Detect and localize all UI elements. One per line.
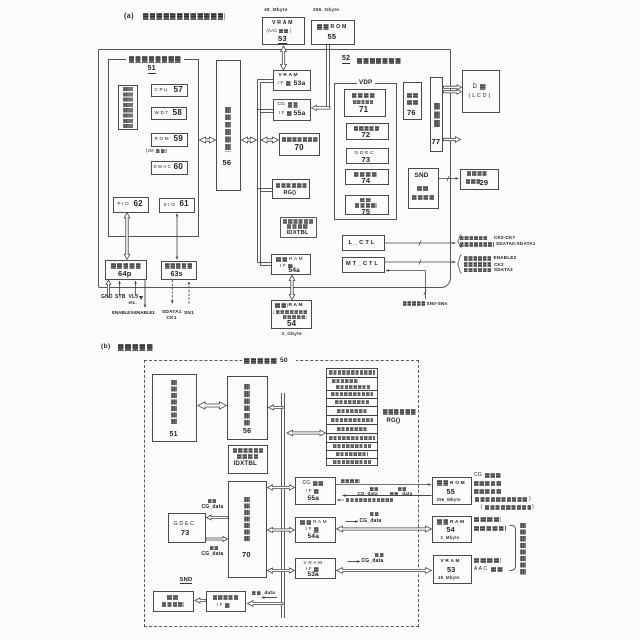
label SND (b)	[180, 577, 193, 585]
label 圧縮 (GDEC)	[208, 499, 217, 503]
label 各種レジスタ (b)	[383, 409, 416, 415]
brace インデックス空間	[510, 525, 516, 570]
num 71	[359, 106, 368, 114]
text 各種レジスタ (a)	[276, 183, 307, 189]
wire CG bus from ROM55 down left line	[326, 45, 328, 109]
text IF部 latin (55a)	[279, 111, 285, 116]
label CG latin (CGデータ)	[474, 473, 482, 478]
box 画像フィルタ 75	[345, 195, 389, 215]
box 描画回路 74	[345, 169, 389, 185]
text 制御レジスタ群 vertical	[123, 87, 133, 128]
box CGバス IF部 55a	[273, 99, 311, 121]
text row MT_CTLレジスタ	[333, 444, 371, 448]
arrow STB into 64p	[118, 281, 121, 296]
text VRAM (b53)	[441, 559, 460, 564]
label 制御プログラム	[485, 505, 531, 510]
wire reg-bus line1 vertical	[257, 80, 259, 263]
text ) close	[290, 29, 292, 33]
text デジタル (29)	[467, 171, 488, 176]
wire main bus line2 (b)	[284, 393, 286, 618]
text 音声 (SND box)	[417, 186, 429, 192]
label 伸長 (54)	[370, 512, 379, 516]
text WDT	[155, 111, 169, 116]
divider row サウンドレジスタ	[326, 458, 378, 460]
text IF部 latin (54a)	[280, 264, 286, 269]
wire CG bus from ROM55 down right line	[329, 45, 331, 107]
text テーブル (b)	[237, 454, 259, 459]
arrow 70 to VRAM-IF (b)	[268, 568, 295, 573]
box 外部ROM 55 (b)	[432, 477, 472, 505]
text CG latin (b55a)	[303, 481, 311, 486]
label 複合チップ 50 on border	[242, 357, 296, 364]
text 表 kanji	[480, 84, 487, 90]
wire stub bus to RG lower	[261, 191, 273, 193]
text ROM (b55)	[450, 481, 465, 486]
box CPU 57	[151, 84, 188, 97]
title (a) kanji 複合チップの内部構成	[143, 13, 225, 20]
text 部 kanji (b53a)	[314, 567, 320, 572]
label 音声 kanji (ROM)	[390, 492, 399, 496]
text CG latin	[278, 102, 286, 107]
box MT_CTL	[342, 257, 385, 273]
label RG() (b)	[387, 418, 401, 424]
label CG_data (GDEC out)	[202, 552, 224, 557]
label 制御プログラム close	[532, 505, 534, 510]
arrow 70 to CGバスIF (b)	[268, 485, 295, 490]
label ブートプログラム close	[529, 497, 531, 502]
slash on SND arrow	[447, 176, 449, 181]
num 63s	[171, 271, 183, 278]
text ROM	[155, 137, 169, 142]
text CPUバス部 vertical	[225, 107, 232, 152]
text GDEC (b)	[174, 522, 195, 527]
label SN1	[184, 311, 194, 316]
box VDP group	[334, 83, 397, 220]
box D表(LCD)	[462, 70, 500, 113]
box CGバス IF部 55a (b)	[295, 477, 336, 505]
text アンプ (29)	[466, 179, 480, 184]
num 53a (b)	[308, 572, 319, 579]
box 拡張RAM IF部 54a (b)	[295, 517, 336, 543]
title (a) prefix	[124, 13, 134, 20]
box 出力選択 76	[403, 82, 422, 120]
box ROM 59	[151, 133, 188, 147]
brace for MT_CTL labels	[458, 255, 462, 273]
num 59	[174, 135, 184, 144]
label 2_Mbyte (b)	[441, 536, 460, 541]
label 内蔵CPU回路 kanji	[129, 56, 182, 63]
num 77	[432, 138, 441, 146]
label etc.	[129, 301, 137, 306]
text row 表示レジスタ	[337, 427, 367, 431]
icon down-triangle after VL3	[139, 296, 143, 300]
num 53a	[294, 80, 306, 87]
text データ転送回路 (a)	[282, 137, 318, 143]
wire stub bus to 53a lower	[261, 82, 274, 84]
arrow bus to メモリバス IF	[248, 601, 284, 607]
text row L_CTLレジスタ	[336, 452, 368, 456]
num 76	[407, 109, 416, 117]
text row プリローダレジスタ	[331, 418, 373, 422]
text GDEC (a VDP)	[355, 151, 374, 156]
text CPUバス部 vertical (b56)	[244, 384, 250, 426]
arrow bus into CPUバス部 (b)	[269, 405, 284, 410]
label ランプ駆動信号	[460, 242, 494, 247]
text 出力 (76)	[407, 93, 419, 99]
num 54 (b)	[447, 526, 455, 534]
text RAM (b54)	[450, 520, 464, 525]
text 部 kanji (membus)	[225, 603, 231, 609]
brace for L_CTL labels	[458, 235, 462, 248]
box SND 音声デコード	[408, 168, 439, 209]
num 53 (b)	[447, 566, 455, 574]
arrow 70 to 拡張RAM-IF (b)	[268, 527, 295, 532]
text バス kanji (b55a)	[313, 481, 324, 487]
box GDEC 73 (a)	[346, 148, 389, 164]
wire stub bus to 54a upper	[258, 262, 272, 264]
label 任意領域 (54)	[474, 517, 501, 522]
wire センサ信号 vertical	[425, 271, 427, 300]
num 50 (b)	[280, 358, 288, 365]
text 画像 (75)	[360, 198, 372, 203]
text D latin	[473, 84, 478, 90]
text AAC領域 kanji	[279, 29, 289, 34]
arrow ENABLE out of 64p	[144, 280, 147, 308]
label 音声データ	[474, 481, 502, 486]
num 55 (b)	[447, 488, 455, 496]
box 拡張RAM 54 (b)	[432, 516, 472, 543]
num 58	[173, 109, 183, 118]
text 拡張 kanji (54a)	[276, 257, 289, 263]
num 54a (b)	[308, 534, 320, 541]
num 73 (b)	[181, 529, 189, 537]
box インデックステーブル IDXTBL (a)	[280, 217, 317, 238]
num 51 (b)	[170, 431, 178, 438]
num 64p	[118, 270, 132, 278]
text インデックス (row2 line1)	[332, 379, 358, 383]
box 出力部 77	[430, 77, 444, 152]
arrow CPU51 to CPUバス部	[200, 137, 216, 143]
num 55a	[294, 110, 306, 117]
text インデックス (b)	[233, 448, 264, 453]
label CG_data (ROM)	[358, 492, 378, 497]
text SIO	[164, 203, 175, 208]
box VRAM IF部 53a	[273, 70, 311, 91]
text IF部 kanji	[286, 81, 292, 87]
text 出力部 vertical (77)	[434, 103, 441, 129]
box 制御レジスタ群	[118, 85, 138, 131]
box VRAM IF部 53a (b)	[295, 558, 336, 579]
label ENABLE2	[494, 256, 517, 261]
text 選択 (76)	[407, 100, 419, 106]
arrow 圧縮データ ROM to 55a	[343, 494, 432, 497]
text CPU	[155, 88, 168, 93]
arrow L_CTL output	[385, 242, 456, 245]
text IF部 kanji (54a)	[288, 264, 294, 269]
text RG()	[284, 191, 297, 197]
text 任意領域 kanji	[283, 315, 305, 319]
label VDP on border	[357, 80, 375, 87]
box VRAM 53 (b)	[433, 555, 473, 584]
num 51	[148, 65, 156, 74]
box プリローダ 72	[346, 123, 389, 140]
wire stub bus to RG upper	[258, 188, 273, 190]
box 各種レジスタ stack (b)	[326, 368, 378, 466]
label CK0-CK7	[494, 236, 515, 241]
text デコーダ	[162, 602, 184, 607]
text IF latin (b53a)	[306, 567, 312, 572]
label 256_Gbyte	[313, 8, 339, 13]
text row GDECレジスタ	[335, 400, 369, 404]
text テーブル (a)	[287, 224, 308, 229]
num 52	[342, 55, 350, 64]
text ) close (54)	[306, 315, 308, 319]
title (b) prefix	[101, 344, 111, 351]
arrow SN1 into 63s	[188, 282, 191, 304]
text テーブル レジスタ (row2 line2)	[336, 385, 370, 389]
text IF latin (membus)	[217, 603, 223, 608]
num 62	[134, 200, 143, 208]
text row データ転送レジスタ	[331, 392, 373, 396]
arrow CG_data tick (54)	[346, 520, 359, 523]
label 256_Mbyte (b)	[437, 498, 461, 503]
num 54	[287, 320, 296, 328]
box CPUバス部 56	[216, 60, 242, 191]
arrow CG bus into 55a	[312, 105, 331, 110]
arrow VL3 into 64p	[134, 281, 137, 296]
title (b) kanji 要部構成図	[118, 344, 154, 351]
text VDP	[359, 80, 372, 87]
num 70 (a)	[295, 144, 304, 152]
num 61	[180, 200, 189, 208]
label 複合チップ kanji (b)	[244, 358, 278, 365]
text 入出力回路 (64p)	[111, 263, 142, 269]
box SIO 61	[159, 198, 195, 213]
text L_CTL	[349, 240, 375, 246]
label センサ信号	[403, 301, 425, 306]
box 拡張RAM 54 external (a)	[271, 300, 313, 329]
label CG_data (GDEC in)	[202, 505, 224, 510]
label SDATA1	[162, 310, 182, 315]
text row システム制御レジスタ	[329, 370, 375, 374]
text (ページ領域+ paren	[273, 310, 275, 314]
arrow SDATA1 out of 63s	[171, 280, 174, 304]
label VL3	[129, 295, 139, 300]
box 拡張RAM IF部 54a (a)	[271, 254, 311, 275]
label 融合演出回路	[357, 58, 401, 65]
arrow SND to アンプ29	[439, 177, 459, 180]
text メモリバス	[213, 595, 239, 600]
text 描画回路 (74)	[354, 172, 378, 177]
arrow 54a to 拡張RAM54	[289, 276, 295, 300]
num 53	[278, 35, 287, 44]
label クロック信号 (MT_CTL)	[464, 262, 491, 267]
label クロック信号 (L_CTL)	[460, 236, 488, 241]
arrow 内蔵CPU51 to CPUバス部 (b)	[198, 402, 227, 409]
arrow データ転送 to GDEC (compressed)	[207, 515, 229, 520]
label GND	[101, 295, 113, 300]
text データ転送回路 vertical (b70)	[244, 497, 250, 542]
box 入出力回路 64p	[105, 260, 147, 280]
slash on MT_CTL output	[419, 259, 421, 264]
num 57	[174, 86, 184, 95]
num 54a	[289, 268, 300, 275]
label _data (membus)	[262, 591, 276, 596]
arrow CPUバス部 to reg-bus	[242, 137, 257, 143]
text インデックス (a)	[283, 219, 313, 224]
label データ (CGデータ)	[485, 473, 502, 478]
label SDATA0-SDATA1	[496, 242, 536, 247]
text row 画像フィルタレジスタ	[329, 436, 375, 440]
label 圧縮 (音声 ROM)	[398, 487, 407, 491]
arrow 出力部 to D表LCD upper	[444, 85, 462, 90]
wire reg-bus line2 vertical	[260, 83, 262, 266]
divider row L_CTLレジスタ	[326, 450, 378, 452]
arrow bus to register stack (b)	[287, 430, 326, 436]
label 2_Gbyte	[282, 332, 302, 337]
num 72	[362, 131, 371, 139]
label CK1	[167, 316, 177, 321]
label _data (ROM)	[400, 492, 413, 497]
text IDXTBL (b)	[234, 461, 258, 468]
text 入出力回路 (63s)	[165, 263, 193, 269]
label 48_Mbyte (b)	[438, 576, 460, 581]
num 56	[223, 159, 232, 167]
num 55	[328, 33, 337, 41]
label 内蔵CPU回路 on border	[126, 56, 184, 63]
box 外部ROM 55 external	[311, 20, 355, 45]
text プリローダ (72)	[354, 126, 380, 131]
label 音声 kanji (membus)	[252, 591, 261, 595]
box L_CTL	[342, 235, 385, 251]
box インデックステーブル IDXTBL (b)	[228, 445, 268, 475]
label SN0-SNn	[427, 302, 448, 307]
text (AAC-area) latin part	[267, 29, 278, 33]
label 2Mバイト kanji	[156, 149, 166, 154]
box メモリバス IF部	[206, 591, 246, 612]
text IF部 latin	[278, 81, 284, 86]
arrow GDEC to データ転送 (expanded)	[206, 537, 228, 542]
text SND label in box	[415, 173, 429, 180]
divider row 描画レジスタ	[326, 406, 378, 408]
divider row プリローダレジスタ	[326, 415, 378, 417]
num 56 (b)	[243, 428, 251, 435]
text 内蔵CPU回路 vertical (b51)	[171, 380, 177, 425]
wire stub bus to 55a upper	[258, 109, 274, 111]
box データ転送回路 70 (b)	[228, 481, 267, 578]
text ページ領域+ kanji	[276, 310, 308, 315]
text 拡張 kanji (b54a)	[300, 520, 313, 526]
arrow GND into 64p	[106, 280, 111, 296]
box WDT 58	[151, 107, 187, 120]
text 外部 kanji (b55)	[437, 480, 450, 486]
wire stub bus to 53a upper	[258, 79, 274, 81]
divider row MT_CTLレジスタ	[326, 442, 378, 444]
arrow reg-bus to データ転送回路	[261, 137, 279, 143]
text 表示回路 (71)	[352, 93, 376, 99]
label AAC latin	[474, 567, 487, 572]
text 部 kanji (b54a)	[314, 527, 320, 533]
box 音声デコーダ	[153, 591, 194, 612]
text row 描画レジスタ	[337, 409, 367, 413]
text デコード (SND box)	[412, 195, 435, 201]
arrow VRAM53 to VRAM-IF 53a	[281, 46, 287, 70]
arrow シリアル転送 tick	[337, 499, 344, 502]
label CG_data (54)	[360, 519, 382, 524]
label (ブートプログラム paren	[471, 497, 473, 502]
arrow MT_CTL output	[385, 261, 456, 264]
divider row 画像フィルタレジスタ	[326, 433, 378, 435]
text row サウンドレジスタ	[333, 460, 371, 464]
divider row インデックステーブルレジスタ	[326, 377, 378, 379]
box 表示回路 71	[344, 89, 386, 117]
label 領域 (53)	[491, 567, 504, 572]
box 各種レジスタ RG()	[272, 179, 310, 199]
text ROM (55)	[331, 25, 347, 30]
label 伸長 (53)	[375, 553, 384, 557]
text IF部 kanji (55a)	[287, 111, 293, 117]
divider row データ転送レジスタ	[326, 390, 378, 392]
label 圧縮 (CG_data ROM)	[370, 487, 379, 491]
num 73 (a VDP)	[362, 156, 371, 164]
num 55a (b)	[308, 496, 320, 503]
label (2M バイト) paren	[146, 149, 154, 153]
label シリアル/パラレル転送	[346, 498, 393, 502]
text PIO	[118, 202, 129, 207]
slash on L_CTL output	[419, 240, 421, 245]
text (ノーマル) (71)	[353, 100, 374, 104]
box CPUバス部 56 (b)	[227, 376, 268, 440]
arrow 音声_data tick	[262, 596, 278, 599]
text RAM (54)	[289, 303, 303, 308]
text 部 kanji (b55a)	[314, 489, 320, 495]
box GDEC 73 (b)	[168, 513, 206, 543]
arrow into MT_CTL	[386, 269, 425, 272]
text IF latin (b55a)	[306, 489, 312, 494]
arrow CG_data tick (53)	[348, 560, 361, 563]
num 74	[362, 177, 371, 185]
text バス kanji	[288, 102, 298, 108]
label STB	[115, 295, 126, 300]
text IDXTBL (a)	[287, 230, 309, 236]
text DMAC	[154, 165, 172, 170]
text IF latin (b54a)	[306, 527, 312, 532]
arrow 出力部 lower output	[444, 137, 461, 143]
text フィルタ (75)	[355, 203, 377, 208]
arrow 53a to VRAM53 (b)	[337, 568, 432, 574]
box PIO 62	[113, 197, 149, 213]
label 任意領域 (53)	[474, 558, 501, 563]
text RAM (54a)	[289, 257, 303, 262]
label CG_data (53)	[362, 559, 384, 564]
text VRAM (53a)	[279, 73, 298, 78]
label プログラム	[474, 489, 502, 494]
arrow 54a to 拡張RAM54 (b)	[337, 526, 432, 532]
label モード切替信号	[464, 268, 492, 273]
label (制御プログラム paren	[481, 505, 483, 510]
label ページ領域 (54)	[474, 526, 506, 531]
text 音声 (デコーダ box)	[167, 595, 179, 600]
box 内蔵CPU回路 51	[108, 59, 200, 237]
slash on センサ信号 wire	[424, 290, 426, 295]
wire stub bus to 55a lower	[261, 112, 274, 114]
label インデックス空間 vertical	[520, 523, 526, 575]
label CK2	[494, 263, 504, 268]
box VRAM 53 external	[262, 17, 305, 45]
box DMAC 60	[151, 161, 188, 175]
text MT_CTL	[346, 262, 378, 268]
num 70 (b)	[242, 551, 251, 559]
